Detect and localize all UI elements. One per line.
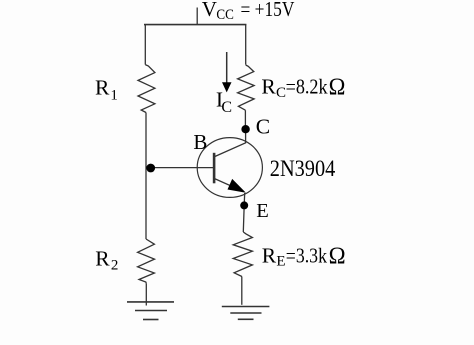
svg-text:C: C bbox=[276, 85, 286, 101]
label RC=8.2kOhm bbox=[261, 75, 345, 101]
svg-text:V: V bbox=[202, 0, 217, 21]
svg-text:R: R bbox=[95, 76, 110, 100]
resistor R1 bbox=[138, 65, 155, 113]
wire emitter to node E and RE bbox=[243, 193, 244, 232]
svg-text:1: 1 bbox=[110, 87, 118, 103]
label RE=3.3kOhm bbox=[262, 244, 346, 270]
label IC bbox=[216, 87, 232, 116]
current arrow IC head bbox=[222, 82, 232, 92]
transistor base bar bbox=[213, 153, 216, 184]
transistor emitter line bbox=[215, 179, 243, 192]
svg-text:2N3904: 2N3904 bbox=[270, 156, 336, 181]
wire RC to node C bbox=[244, 110, 246, 125]
wire base from node B bbox=[151, 167, 213, 169]
svg-text:Ω: Ω bbox=[329, 244, 346, 270]
wire top rail bbox=[144, 24, 246, 26]
svg-text:E: E bbox=[276, 254, 285, 270]
node dot E bbox=[240, 201, 248, 209]
svg-text:E: E bbox=[256, 200, 269, 222]
svg-text:2: 2 bbox=[111, 258, 119, 274]
transistor emitter arrowhead bbox=[228, 179, 246, 193]
svg-text:C: C bbox=[256, 114, 270, 138]
svg-text:R: R bbox=[261, 75, 276, 99]
label VCC = +15V bbox=[202, 0, 295, 23]
wire right drop to RC bbox=[245, 24, 247, 64]
transistor Q1 body circle bbox=[197, 138, 262, 198]
svg-text:=8.2k: =8.2k bbox=[286, 75, 328, 99]
svg-text:CC: CC bbox=[216, 7, 234, 23]
current arrow IC shaft bbox=[226, 52, 228, 84]
wire left middle (R1 to R2) bbox=[145, 113, 147, 240]
wire node C to transistor collector bbox=[215, 133, 246, 157]
label R2 bbox=[95, 247, 118, 274]
svg-text:C: C bbox=[221, 99, 232, 116]
svg-text:=3.3k: =3.3k bbox=[286, 244, 327, 268]
resistor R2 bbox=[138, 239, 155, 283]
ground right bbox=[222, 307, 270, 320]
resistor RE bbox=[233, 232, 252, 277]
node dot B junction bbox=[146, 164, 155, 173]
wire R2 to ground bbox=[145, 283, 147, 305]
label R1 bbox=[95, 76, 118, 104]
ground left bbox=[127, 302, 174, 320]
svg-text:= +15V: = +15V bbox=[241, 0, 295, 21]
svg-text:R: R bbox=[262, 244, 277, 268]
resistor RC bbox=[238, 65, 255, 110]
svg-text:B: B bbox=[193, 130, 207, 154]
wire VCC stub bbox=[196, 8, 198, 25]
wire left drop to R1 bbox=[144, 24, 146, 64]
svg-text:Ω: Ω bbox=[329, 75, 346, 101]
wire RE to ground bbox=[241, 277, 243, 305]
node dot C bbox=[241, 125, 249, 133]
svg-text:R: R bbox=[95, 247, 110, 271]
